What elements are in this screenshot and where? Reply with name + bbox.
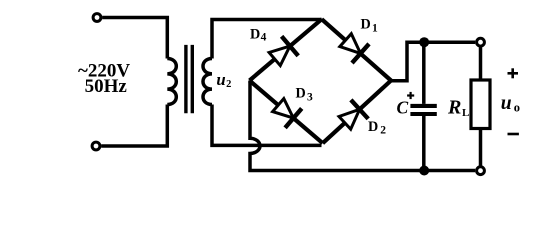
inductor secondary winding u2 <box>203 59 212 105</box>
diode D2 <box>339 100 368 129</box>
junction dot C top <box>419 37 429 47</box>
svg-text:2: 2 <box>226 79 231 90</box>
svg-text:u: u <box>501 93 512 114</box>
svg-text:L: L <box>462 107 469 119</box>
svg-text:R: R <box>447 96 461 118</box>
terminal output bottom <box>477 167 485 175</box>
bridge edge left-top with D4 <box>250 19 322 80</box>
resistor RL body <box>471 80 490 129</box>
label + output <box>508 68 519 78</box>
transformer core <box>184 45 187 113</box>
terminal top-left <box>93 14 101 22</box>
bridge edge bottom-right with D2 <box>323 81 391 144</box>
svg-text:1: 1 <box>372 22 378 34</box>
label - output <box>508 133 519 136</box>
svg-text:D: D <box>250 27 260 43</box>
wire primary bottom <box>101 105 167 147</box>
wire primary top <box>102 18 167 59</box>
svg-text:C: C <box>397 97 409 117</box>
svg-text:o: o <box>514 100 520 114</box>
label + of capacitor <box>407 92 414 99</box>
resistor RL leads <box>479 46 483 80</box>
terminal output top <box>477 38 485 46</box>
wire left vertex down with hop over secondary wire <box>250 81 475 171</box>
inductor primary winding <box>167 59 176 105</box>
svg-text:3: 3 <box>307 92 313 104</box>
svg-text:D: D <box>368 119 378 135</box>
junction dot C bottom <box>419 166 429 176</box>
wire right vertex to top rail <box>391 42 475 80</box>
svg-text:2: 2 <box>380 124 386 136</box>
bridge edge left-bottom with D3 <box>250 81 323 144</box>
diode D4 <box>269 36 298 65</box>
terminal bottom-left <box>92 142 100 150</box>
bridge edge top-right with D1 <box>322 19 391 80</box>
diode D1 <box>340 34 369 63</box>
capacitor C plates <box>410 104 436 108</box>
wire secondary bottom <box>212 105 322 146</box>
svg-text:D: D <box>361 17 371 33</box>
svg-text:4: 4 <box>261 32 267 44</box>
wire secondary top <box>212 20 322 59</box>
svg-text:50Hz: 50Hz <box>85 76 128 97</box>
capacitor C wires <box>422 42 426 104</box>
diode D3 <box>273 99 302 128</box>
svg-text:u: u <box>216 70 225 89</box>
svg-text:D: D <box>296 86 306 102</box>
